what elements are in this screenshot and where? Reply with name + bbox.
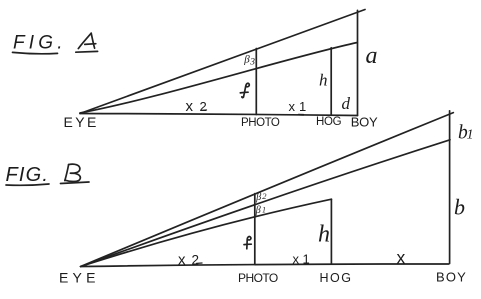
FIG A sight line eye to boy top (a line) bbox=[80, 10, 365, 114]
svg-text:x: x bbox=[178, 252, 186, 269]
svg-text:1: 1 bbox=[303, 252, 310, 267]
svg-text:b: b bbox=[454, 195, 465, 220]
svg-text:1: 1 bbox=[262, 205, 266, 214]
label f (A) bottom hook bbox=[242, 96, 244, 99]
FIG B boy vertical line bbox=[449, 111, 451, 264]
svg-text:x: x bbox=[397, 248, 406, 268]
FIG A title underline A bbox=[76, 50, 98, 53]
svg-text:β: β bbox=[243, 54, 250, 66]
svg-text:h: h bbox=[318, 222, 330, 248]
svg-text:2: 2 bbox=[262, 191, 267, 201]
baseline ink blob under x1 (A) bbox=[299, 114, 304, 116]
svg-text:1: 1 bbox=[299, 99, 306, 114]
svg-text:x: x bbox=[186, 98, 194, 115]
FIG A baseline EYE-BOY bbox=[80, 114, 358, 116]
FIG B sight line eye to hog top bbox=[81, 199, 332, 266]
svg-text:β: β bbox=[255, 205, 261, 216]
FIG A title letter A stroke 1 bbox=[78, 33, 91, 48]
svg-text:a: a bbox=[366, 43, 378, 69]
FIG A sight line eye over hog top bbox=[80, 43, 357, 114]
FIG A boy vertical line bbox=[357, 10, 359, 115]
FIG B sight line eye to boy at b bbox=[81, 140, 450, 267]
label f (B) crossbar bbox=[244, 243, 251, 245]
FIG A hog vertical line bbox=[330, 48, 332, 115]
svg-text:x: x bbox=[289, 99, 296, 114]
svg-text:h: h bbox=[319, 71, 328, 90]
FIG B title letter B bottom bowl bbox=[65, 173, 80, 181]
FIG A title underline FIG bbox=[13, 52, 58, 53]
FIG B title FIG. bbox=[6, 164, 50, 186]
FIG A title letter A crossbar bbox=[85, 43, 96, 46]
svg-text:FIG.: FIG. bbox=[6, 164, 50, 186]
FIG A photo vertical line bbox=[255, 49, 257, 115]
label f (A) crossbar bbox=[240, 91, 248, 94]
svg-text:EYE: EYE bbox=[59, 270, 100, 286]
FIG B hog vertical line bbox=[330, 199, 332, 264]
FIG A title letter A stroke 2 bbox=[91, 33, 94, 48]
svg-text:2: 2 bbox=[192, 253, 200, 268]
svg-text:1: 1 bbox=[467, 127, 474, 142]
FIG B photo vertical line bbox=[254, 194, 256, 265]
FIG B sight line eye to boy top (b1 line) bbox=[81, 113, 454, 267]
svg-text:β: β bbox=[255, 192, 261, 203]
svg-text:3: 3 bbox=[249, 58, 255, 68]
svg-text:HOG: HOG bbox=[320, 271, 353, 285]
svg-text:PHOTO: PHOTO bbox=[241, 117, 280, 129]
label f (A) stem and loop bbox=[244, 83, 250, 97]
svg-text:BOY: BOY bbox=[351, 115, 378, 130]
x2 (B) flat tail of 2 bbox=[197, 262, 203, 264]
label f (B) stem and loop bbox=[247, 237, 251, 249]
svg-text:x: x bbox=[293, 252, 300, 267]
svg-text:d: d bbox=[342, 94, 351, 113]
FIG B title underline FIG bbox=[6, 184, 49, 185]
svg-text:2: 2 bbox=[200, 99, 207, 114]
svg-text:EYE: EYE bbox=[64, 114, 99, 130]
x2 (A) flat tail of 2 bbox=[201, 109, 207, 111]
FIG B labels bbox=[59, 252, 467, 286]
svg-text:HOG: HOG bbox=[316, 116, 342, 128]
svg-text:BOY: BOY bbox=[436, 270, 467, 285]
FIG A title FIG. bbox=[13, 33, 67, 54]
FIG A labels bbox=[64, 98, 378, 130]
FIG B baseline EYE-BOY bbox=[81, 264, 449, 267]
FIG B title underline B bbox=[61, 182, 90, 184]
FIG B title letter B top bowl bbox=[69, 164, 80, 173]
svg-text:FIG.: FIG. bbox=[13, 33, 67, 54]
svg-text:PHOTO: PHOTO bbox=[238, 271, 278, 285]
FIG B title letter B stem bbox=[65, 165, 69, 181]
